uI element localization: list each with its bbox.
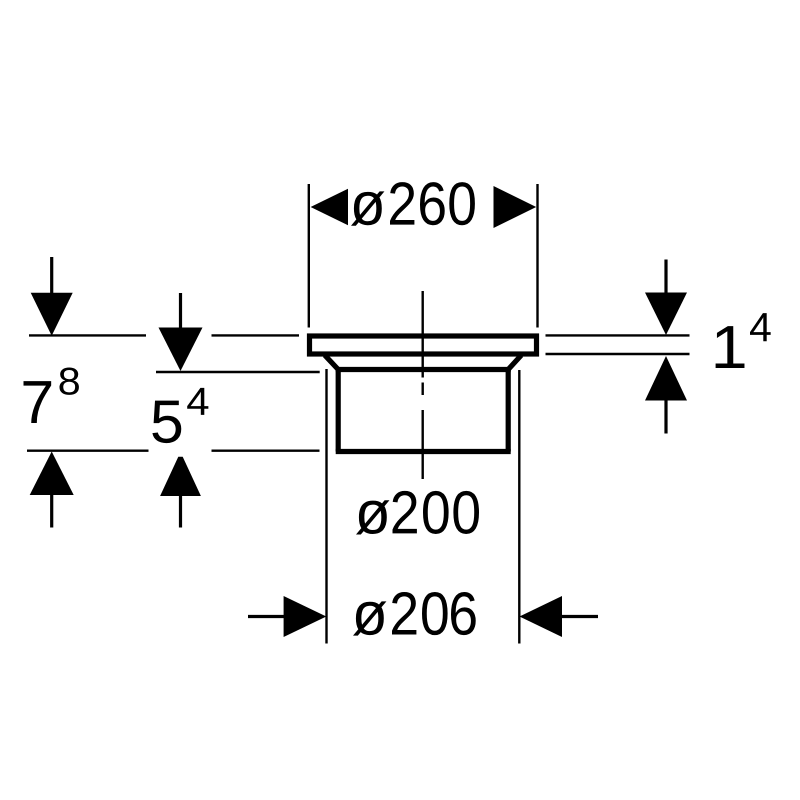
1/4 dim: bottom extension line (flange bottom level) <box>546 353 690 355</box>
7/8 dim: top line segments at flange-top level <box>29 334 146 336</box>
ø206 right extension line <box>518 370 520 644</box>
1/4 dim: bottom shaft <box>664 400 667 434</box>
ø206 left arrow <box>284 596 327 637</box>
ø260 left extension line <box>308 184 310 328</box>
centerline (vertical axis) <box>422 291 424 378</box>
5/4 dim: bottom shaft <box>179 495 182 528</box>
1/4 dim: down arrow <box>645 293 687 336</box>
bottom dim line segments (shared 7/8 + 5/4) <box>27 450 149 452</box>
ø206 right arrow <box>520 596 563 637</box>
1/4 dim: top shaft <box>664 260 667 295</box>
7/8 dim: down arrow <box>31 293 73 336</box>
7/8 dim: top shaft <box>50 257 53 294</box>
part: spigot left wall <box>336 370 341 452</box>
dimension label o260 <box>351 182 475 226</box>
5/4 dim: up arrow <box>160 457 201 496</box>
1/4 dim: up arrow <box>645 356 687 401</box>
7/8 dim: up arrow <box>30 452 74 496</box>
part: spigot right wall <box>506 370 511 452</box>
ø260 left arrow <box>311 189 348 226</box>
part: right taper shoulder <box>508 355 521 369</box>
5/4 dim: top shaft <box>179 293 182 330</box>
part: left taper shoulder <box>325 355 338 369</box>
1/4 dim: top extension line (flange top level) <box>546 334 690 336</box>
ø206 right shaft <box>561 615 598 618</box>
dimension label 1 (superscript 4) <box>716 313 771 368</box>
ø260 right extension line <box>536 184 538 328</box>
dimension label o206 <box>353 592 476 636</box>
dimension label 7 (superscript 8) <box>24 368 79 423</box>
dimension label o200 <box>356 491 479 535</box>
5/4 dim: down arrow <box>159 328 203 372</box>
part: flange plate outline <box>310 336 537 354</box>
ø206 left extension line <box>325 369 327 644</box>
part: spigot top edge <box>336 367 511 372</box>
ø260 right arrow <box>494 186 537 228</box>
7/8 dim: bottom shaft <box>50 494 53 528</box>
part: spigot bottom edge <box>336 449 511 454</box>
ø206 left shaft <box>248 615 285 618</box>
dimension label 5 (superscript 4) <box>152 388 208 443</box>
5/4 dim: top line at shoulder level <box>156 371 320 373</box>
